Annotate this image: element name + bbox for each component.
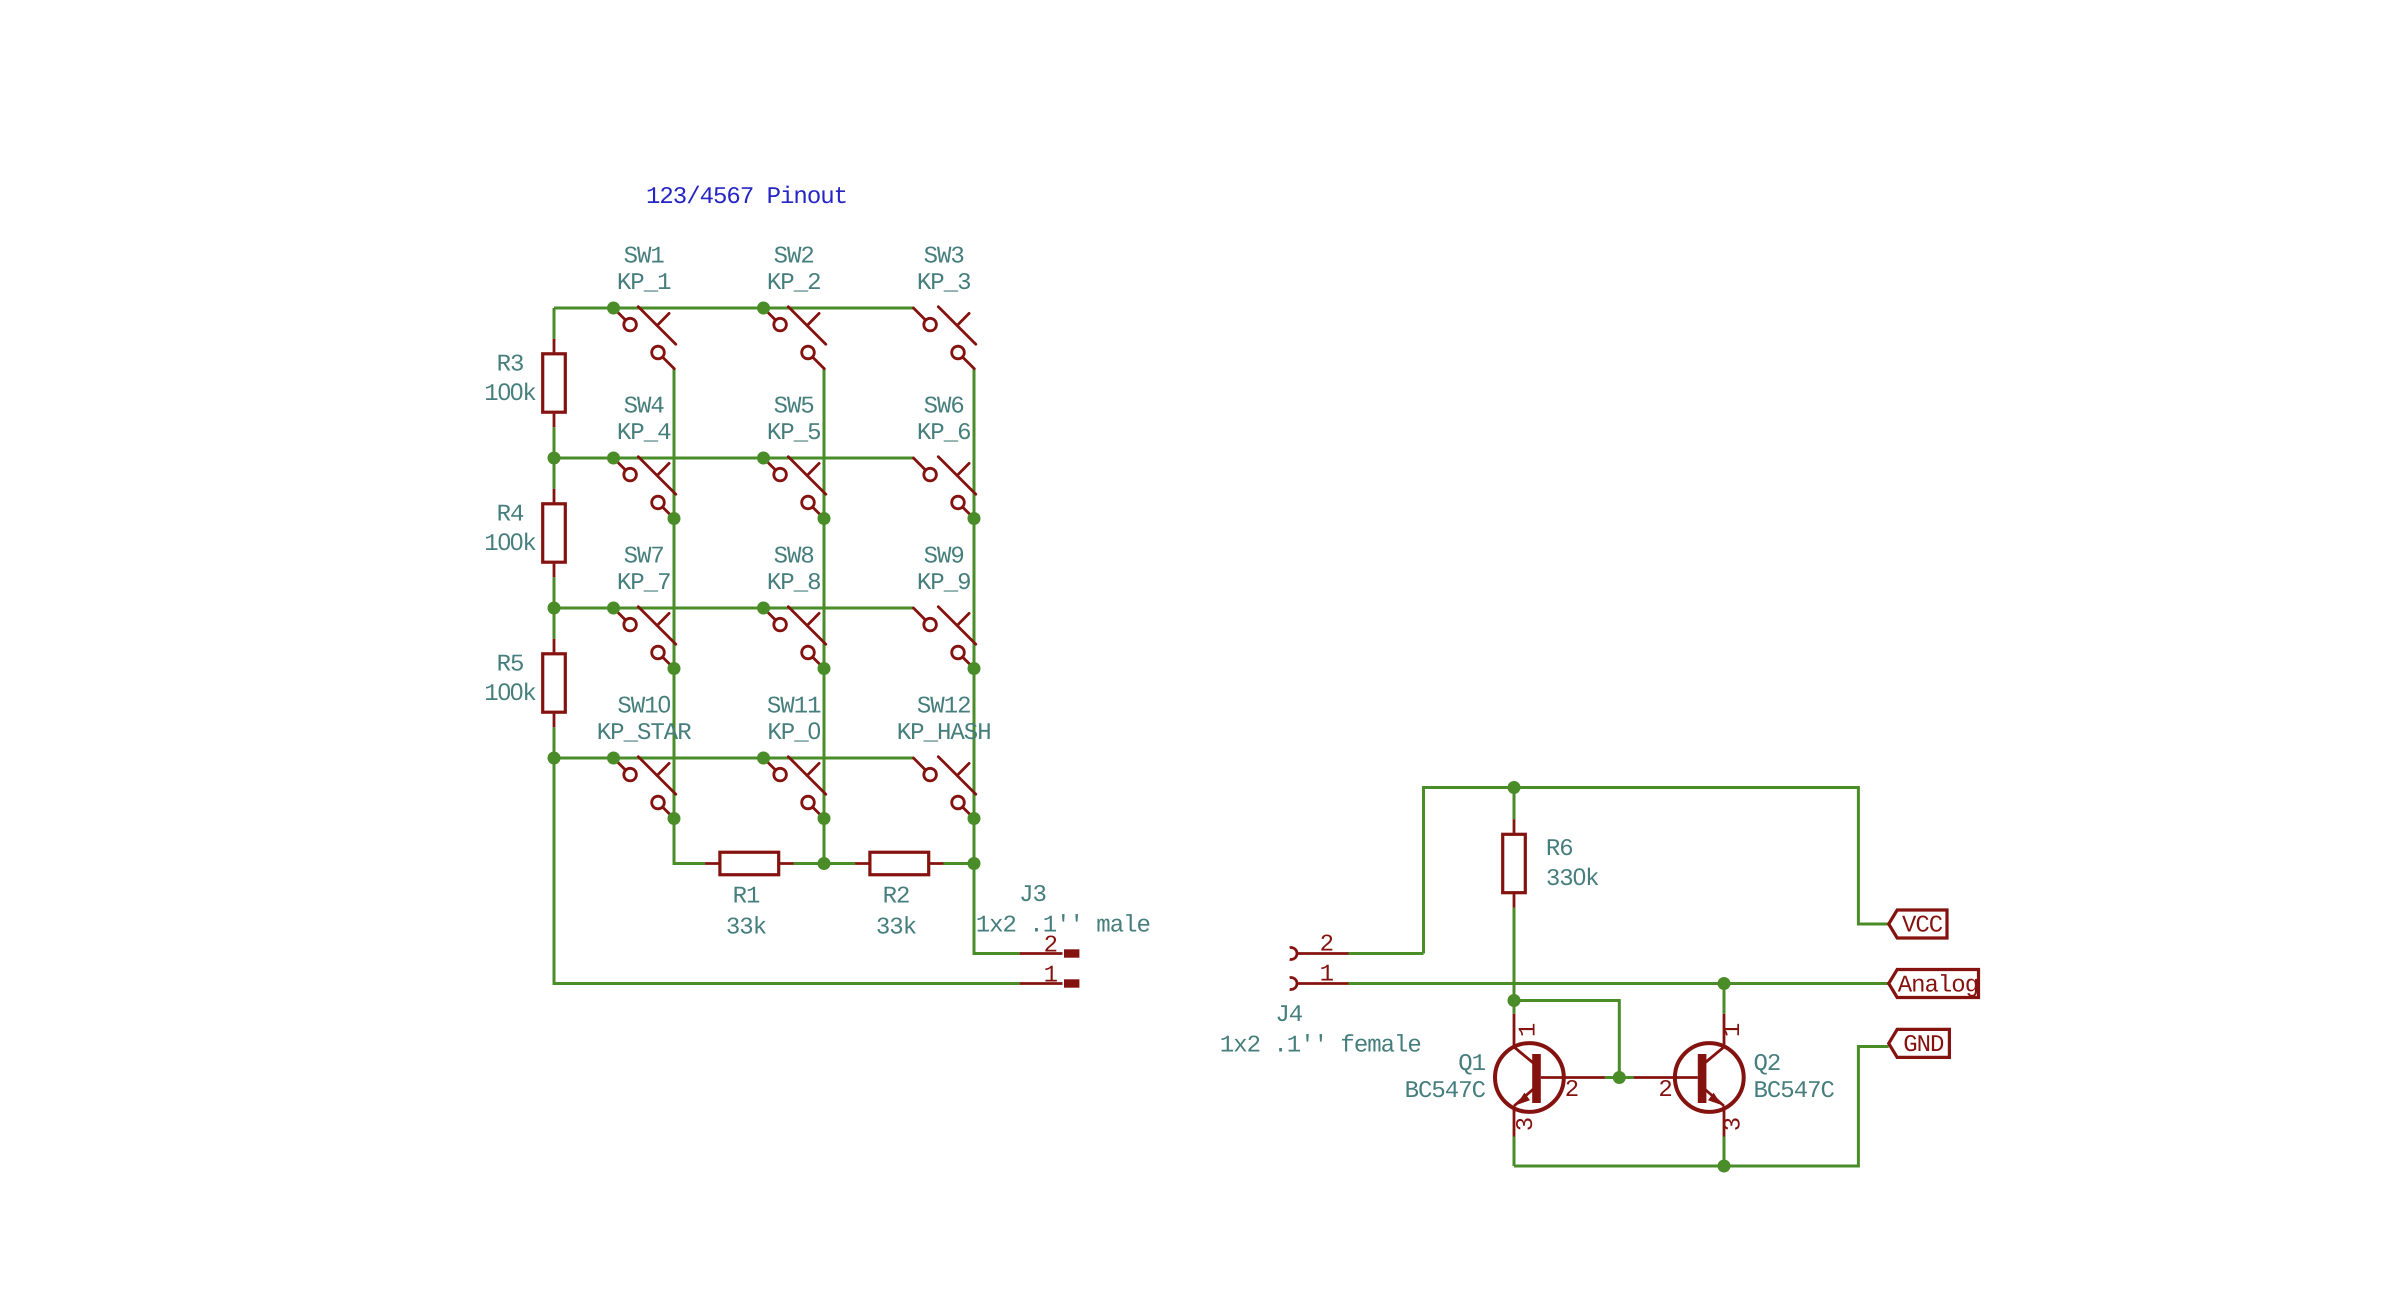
svg-text:R4: R4	[497, 502, 524, 529]
svg-text:1: 1	[1320, 962, 1334, 989]
junction row 1 / SW1 pin1	[607, 302, 620, 315]
junction dot Q2 emitter / GND rail	[1718, 1160, 1731, 1173]
wire column 3	[974, 369, 1020, 954]
switch SW1 (KP_1)	[614, 244, 676, 369]
global label VCC	[1889, 910, 1947, 940]
wire J4 pin2 to rail	[1349, 952, 1424, 955]
svg-text:R6: R6	[1546, 836, 1573, 863]
svg-text:BC547C: BC547C	[1405, 1078, 1486, 1105]
svg-text:KP_6: KP_6	[917, 420, 971, 447]
svg-text:1x2 .1'' male: 1x2 .1'' male	[976, 913, 1150, 940]
resistor R3 100k	[484, 339, 565, 427]
Q2 labels	[1754, 1051, 1835, 1105]
svg-text:Analog: Analog	[1898, 972, 1978, 999]
svg-text:2: 2	[1565, 1077, 1578, 1104]
svg-text:SW7: SW7	[624, 544, 664, 571]
svg-text:Q2: Q2	[1754, 1051, 1781, 1078]
svg-text:2: 2	[1658, 1077, 1671, 1104]
junction column 1 / SW7 pin2	[668, 662, 681, 675]
junction column 3 / SW9 pin2	[968, 662, 981, 675]
switch SW4 (KP_4)	[614, 394, 676, 519]
transistor Q2 BC547C	[1634, 1014, 1744, 1137]
svg-text:330k: 330k	[1546, 864, 1599, 893]
connector J3 labels	[976, 882, 1150, 940]
wire between R1 and R2	[794, 862, 856, 865]
svg-text:KP_STAR: KP_STAR	[597, 720, 691, 747]
svg-text:3: 3	[1513, 1118, 1540, 1131]
transistor Q1 BC547C	[1495, 1014, 1605, 1137]
switch SW3 (KP_3)	[914, 244, 976, 369]
junction column 2 / R1-R2 node	[818, 857, 831, 870]
junction dot Q2 collector / Analog	[1718, 977, 1731, 990]
connector J4 pin 1 (female)	[1290, 962, 1349, 990]
svg-text:SW3: SW3	[924, 244, 964, 271]
junction row 1 / SW2 pin1	[757, 302, 770, 315]
junction column 2 / SW5 pin2	[818, 512, 831, 525]
svg-text:33k: 33k	[876, 915, 917, 942]
switch SW10 (KP_STAR)	[597, 692, 691, 819]
connector J3 pin 1 (male)	[1020, 963, 1080, 990]
wire row 1 net KP_A	[554, 307, 914, 310]
wire VCC top rail	[1424, 788, 1889, 954]
svg-text:R5: R5	[497, 652, 524, 679]
svg-text:KP_5: KP_5	[767, 420, 821, 447]
wire Q1 base to Q2 base	[1605, 1076, 1634, 1079]
junction row 4 / left rail	[548, 752, 561, 765]
wire row 4 net KP_D	[554, 757, 914, 760]
svg-text:SW9: SW9	[924, 544, 964, 571]
switch SW11 (KP_0)	[764, 694, 826, 819]
svg-text:KP_4: KP_4	[617, 420, 671, 447]
svg-text:Q1: Q1	[1458, 1051, 1485, 1078]
svg-text:1: 1	[1516, 1023, 1543, 1037]
svg-text:SW8: SW8	[774, 544, 814, 571]
svg-text:100k: 100k	[484, 679, 536, 708]
connector J4 labels	[1220, 1002, 1421, 1060]
svg-text:GND: GND	[1903, 1032, 1944, 1059]
wire R6 bottom to Q1 collector	[1513, 908, 1516, 1014]
wire Q2 collector stub	[1723, 984, 1726, 1014]
wire GND bottom rail	[1514, 1047, 1889, 1167]
switch SW6 (KP_6)	[914, 394, 976, 519]
resistor R5 100k	[484, 639, 565, 727]
junction row 2 / left rail	[548, 452, 561, 465]
junction column 3 / SW12 pin2	[968, 812, 981, 825]
svg-text:2: 2	[1320, 932, 1333, 959]
junction dot collector feedback tap	[1508, 994, 1521, 1007]
svg-text:1: 1	[1720, 1023, 1747, 1037]
junction column 3 / R2 node	[968, 857, 981, 870]
connector J4 pin 2 (female)	[1290, 932, 1349, 960]
global label GND	[1889, 1029, 1950, 1059]
svg-text:J4: J4	[1275, 1002, 1302, 1029]
junction row 4 / SW10 pin1	[607, 752, 620, 765]
switch SW9 (KP_9)	[914, 544, 976, 669]
svg-text:R3: R3	[497, 352, 524, 379]
resistor R1 33k	[705, 852, 793, 941]
connector J3 pin 2 (male)	[1020, 933, 1080, 960]
svg-text:123/4567 Pinout: 123/4567 Pinout	[646, 184, 847, 211]
svg-text:KP_2: KP_2	[767, 270, 821, 297]
junction dot base node	[1613, 1071, 1626, 1084]
svg-text:VCC: VCC	[1902, 913, 1943, 940]
junction column 3 / SW6 pin2	[968, 512, 981, 525]
svg-text:KP_1: KP_1	[617, 270, 671, 297]
switch SW7 (KP_7)	[614, 544, 676, 669]
wire base feedback	[1514, 1001, 1619, 1078]
junction column 1 / SW4 pin2	[668, 512, 681, 525]
svg-text:1x2 .1'' female: 1x2 .1'' female	[1220, 1033, 1421, 1060]
junction column 1 / SW10 pin2	[668, 812, 681, 825]
switch SW2 (KP_2)	[764, 244, 826, 369]
svg-text:SW4: SW4	[624, 394, 665, 421]
svg-text:J3: J3	[1019, 882, 1046, 909]
svg-text:SW1: SW1	[624, 244, 665, 271]
wire R2 to column 3	[944, 862, 975, 865]
wire Analog net	[1349, 982, 1889, 985]
switch SW12 (KP_HASH)	[897, 694, 991, 819]
svg-text:SW11: SW11	[767, 694, 821, 721]
svg-text:KP_8: KP_8	[767, 570, 821, 597]
junction row 2 / SW5 pin1	[757, 452, 770, 465]
svg-text:33k: 33k	[726, 915, 767, 942]
svg-text:100k: 100k	[484, 379, 536, 408]
resistor R4 100k	[484, 489, 565, 577]
resistor R2 33k	[855, 852, 943, 941]
svg-text:KP_HASH: KP_HASH	[897, 720, 991, 747]
svg-text:SW5: SW5	[774, 394, 814, 421]
svg-text:KP_7: KP_7	[617, 570, 671, 597]
wire left rail segments between resistors	[554, 308, 1020, 984]
svg-text:100k: 100k	[484, 529, 536, 558]
svg-text:SW10: SW10	[617, 692, 670, 721]
junction column 2 / SW8 pin2	[818, 662, 831, 675]
wire row 3 net KP_C	[554, 607, 914, 610]
junction row 3 / SW8 pin1	[757, 602, 770, 615]
switch SW8 (KP_8)	[764, 544, 826, 669]
junction column 2 / SW11 pin2	[818, 812, 831, 825]
junction row 4 / SW11 pin1	[757, 752, 770, 765]
junction row 3 / left rail	[548, 602, 561, 615]
svg-text:R2: R2	[883, 884, 910, 911]
junction row 3 / SW7 pin1	[607, 602, 620, 615]
wire row 2 net KP_B	[554, 457, 914, 460]
switch SW5 (KP_5)	[764, 394, 826, 519]
junction row 2 / SW4 pin1	[607, 452, 620, 465]
svg-text:SW12: SW12	[917, 694, 971, 721]
resistor R6 330k	[1503, 819, 1599, 907]
svg-text:SW2: SW2	[774, 244, 814, 271]
svg-text:1: 1	[1044, 963, 1058, 990]
wire Q2 emitter stub	[1723, 1137, 1726, 1167]
junction dot VCC rail / R6	[1508, 781, 1521, 794]
wire column 2	[823, 369, 826, 864]
Q1 labels	[1405, 1051, 1486, 1105]
svg-text:SW6: SW6	[924, 394, 964, 421]
svg-text:KP_0: KP_0	[767, 718, 820, 747]
wire column 1	[674, 369, 705, 864]
wire R6 top stub	[1513, 788, 1516, 820]
svg-text:KP_3: KP_3	[917, 270, 971, 297]
svg-text:BC547C: BC547C	[1754, 1078, 1835, 1105]
svg-text:R1: R1	[733, 884, 760, 911]
global label Analog	[1889, 970, 1979, 1000]
wire Q1 emitter stub	[1513, 1137, 1516, 1167]
svg-text:KP_9: KP_9	[917, 570, 971, 597]
svg-text:3: 3	[1721, 1118, 1748, 1131]
